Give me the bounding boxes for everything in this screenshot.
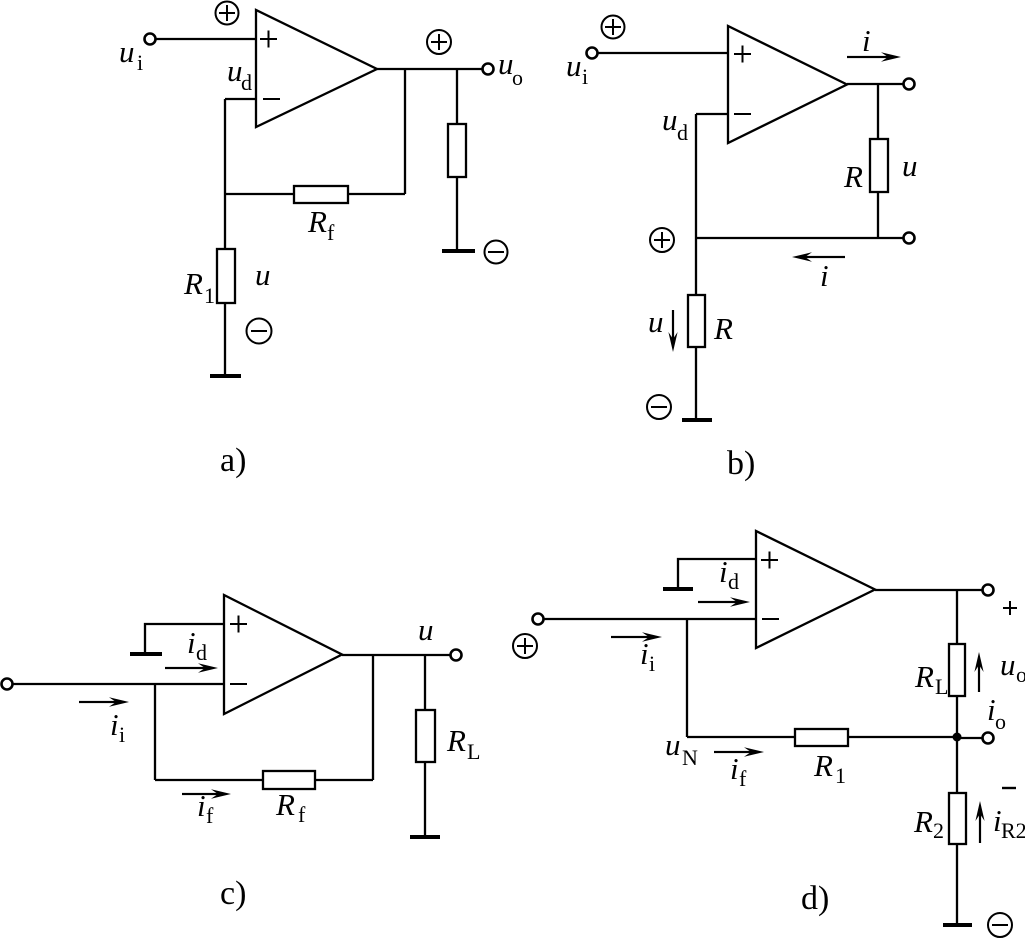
svg-text:c): c) [220, 875, 246, 912]
wire feedback vertical c [372, 655, 374, 780]
resistor RL-c [416, 710, 435, 762]
terminal b-out-bottom [904, 233, 915, 244]
node N-d [953, 733, 962, 742]
minus sign d-R2 [1002, 787, 1016, 789]
svg-text:f: f [327, 220, 335, 245]
terminal uo-a [483, 64, 494, 75]
svg-text:d: d [728, 569, 739, 594]
wire output a [377, 68, 483, 70]
svg-text:u: u [902, 148, 918, 183]
resistor Rf-a [294, 186, 348, 203]
terminal ui-a [145, 34, 156, 45]
svg-text:R: R [843, 159, 863, 194]
arrow ii-d [611, 632, 662, 641]
wire feedback vertical a [404, 69, 406, 194]
resistor Rf-c [263, 771, 315, 789]
arrow uo-up-d [974, 652, 983, 692]
plus sign circled a-top [216, 2, 239, 25]
wire output b [847, 83, 903, 85]
ground a-left [210, 374, 241, 378]
resistor R-b-right [870, 139, 888, 192]
svg-text:i: i [119, 722, 125, 747]
svg-text:1: 1 [204, 283, 215, 308]
ground d-left [663, 587, 693, 591]
svg-text:N: N [682, 745, 698, 770]
svg-text:L: L [935, 674, 948, 699]
ground d-bottom [943, 923, 972, 927]
svg-text:i: i [730, 751, 739, 786]
op-amp U-a [256, 10, 377, 127]
resistor load a [448, 124, 466, 177]
svg-text:i: i [649, 651, 655, 676]
wire R2 branch d [956, 737, 958, 925]
ground a-right [442, 249, 475, 253]
resistor R1 [217, 249, 235, 303]
wire output branch b [877, 84, 879, 238]
wire RL branch c [424, 655, 426, 836]
wire ui to + input a [156, 38, 256, 40]
ground b [682, 418, 712, 422]
svg-text:u: u [1000, 647, 1016, 682]
terminal out-d [983, 585, 994, 596]
wire left vertical a [224, 99, 226, 376]
svg-text:i: i [582, 64, 588, 89]
ground c-left [130, 652, 162, 656]
svg-text:f: f [739, 766, 747, 791]
arrow i-b-top [847, 52, 901, 61]
terminal b-out-top [904, 79, 915, 90]
arrow iR2-up-d [975, 801, 984, 843]
wire output c [342, 654, 450, 656]
svg-text:R: R [183, 266, 203, 301]
svg-text:u: u [662, 102, 678, 137]
svg-text:d: d [677, 120, 688, 145]
terminal io-d [983, 733, 994, 744]
svg-text:d): d) [801, 880, 829, 917]
terminal ui-b [587, 48, 598, 59]
wire output d [875, 589, 983, 591]
svg-text:2: 2 [933, 818, 944, 843]
arrow id-d [698, 597, 750, 606]
plus sign circled d-in [513, 634, 537, 658]
svg-text:f: f [298, 802, 306, 827]
wire + input to ground c [145, 624, 224, 653]
minus sign circled d [988, 913, 1012, 937]
plus sign circled b-top [602, 16, 625, 39]
arrow u-down-b [668, 310, 677, 352]
svg-text:R: R [914, 659, 934, 694]
svg-text:i: i [862, 23, 871, 58]
svg-text:i: i [719, 554, 728, 589]
resistor RL-d [949, 644, 965, 696]
svg-text:i: i [110, 707, 119, 742]
svg-text:u: u [119, 34, 135, 69]
svg-text:i: i [197, 788, 206, 823]
wire inverting input a [225, 98, 256, 100]
arrow ii-c [79, 697, 129, 706]
terminal in-d [533, 614, 544, 625]
resistor R1-d [795, 729, 848, 746]
svg-text:u: u [255, 257, 271, 292]
resistor R-b-bottom [688, 295, 705, 347]
arrow if-d [714, 747, 764, 756]
svg-text:u: u [648, 304, 664, 339]
svg-text:o: o [512, 65, 523, 90]
wire junction vertical d [686, 619, 688, 737]
svg-text:R: R [813, 748, 833, 783]
svg-text:i: i [137, 50, 143, 75]
svg-text:d: d [241, 70, 252, 95]
svg-text:i: i [187, 625, 196, 660]
wire feedback c [155, 779, 373, 781]
wire + input to ground d [678, 559, 756, 588]
svg-text:o: o [995, 709, 1006, 734]
wire inverting input b [696, 113, 728, 115]
wire ui to + input b [598, 52, 728, 54]
svg-text:i: i [820, 258, 829, 293]
op-amp U-b [728, 26, 847, 143]
wire input c [13, 683, 224, 685]
svg-text:R2: R2 [1001, 818, 1025, 843]
svg-text:R: R [713, 311, 733, 346]
arrow if-c [182, 789, 231, 798]
svg-text:R: R [307, 204, 327, 239]
op-amp U-d [756, 531, 875, 648]
wire input d [544, 618, 756, 620]
svg-text:u: u [566, 48, 582, 83]
svg-text:u: u [418, 612, 434, 647]
arrow id-c [165, 663, 218, 672]
svg-text:a): a) [220, 442, 246, 479]
svg-text:o: o [1016, 662, 1025, 687]
svg-text:f: f [206, 803, 214, 828]
svg-text:b): b) [727, 445, 755, 482]
wire feedback horizontal a [225, 193, 405, 195]
terminal out-c [451, 650, 462, 661]
plus sign d-out [1003, 601, 1017, 615]
plus sign circled a-out [427, 30, 451, 54]
svg-text:L: L [467, 739, 480, 764]
arrow i-b-bottom [792, 252, 845, 261]
resistor R2-d [949, 793, 966, 844]
wire node to io terminal d [957, 737, 983, 739]
wire output branch a [456, 69, 458, 250]
terminal in-c [2, 679, 13, 690]
wire feedback d [687, 736, 957, 738]
svg-text:R: R [446, 723, 466, 758]
svg-text:R: R [913, 804, 933, 839]
ground c-right [410, 835, 440, 839]
wire output branch d [956, 590, 958, 737]
svg-text:i: i [640, 636, 649, 671]
minus sign circled a-right [485, 241, 508, 264]
svg-text:u: u [665, 727, 681, 762]
minus sign circled b [647, 395, 671, 419]
svg-text:1: 1 [835, 763, 846, 788]
svg-text:d: d [196, 640, 207, 665]
op-amp U-c [224, 595, 342, 714]
wire lower horizontal b [696, 237, 903, 239]
wire junction vertical c [154, 684, 156, 780]
plus sign circled b-mid [650, 228, 674, 252]
wire left vertical b [695, 114, 697, 420]
minus sign circled a-left [247, 319, 272, 344]
svg-text:R: R [275, 787, 295, 822]
